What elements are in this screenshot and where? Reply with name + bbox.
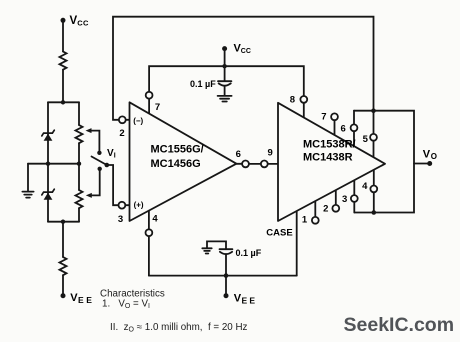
svg-text:EE: EE [242, 296, 258, 306]
svg-text:0.1 µF: 0.1 µF [190, 79, 216, 89]
svg-text:SeekIC.com: SeekIC.com [344, 314, 455, 336]
svg-text:MC1438R: MC1438R [303, 152, 353, 164]
svg-text:MC1556G/: MC1556G/ [151, 144, 204, 156]
svg-text:MC1456G: MC1456G [151, 158, 201, 170]
svg-text:6: 6 [341, 124, 346, 135]
svg-text:MC1538R/: MC1538R/ [303, 138, 356, 150]
svg-text:4: 4 [362, 181, 368, 192]
svg-text:V: V [423, 148, 431, 160]
svg-text:1: 1 [302, 214, 308, 225]
svg-text:O: O [431, 152, 437, 161]
svg-text:EE: EE [78, 295, 95, 305]
svg-text:2: 2 [323, 204, 328, 215]
svg-text:3: 3 [342, 194, 347, 205]
svg-text:(−): (−) [133, 116, 143, 125]
svg-text:7: 7 [321, 112, 326, 123]
svg-text:3: 3 [118, 214, 123, 225]
svg-text:9: 9 [268, 148, 273, 159]
svg-text:I: I [114, 153, 116, 160]
svg-text:CC: CC [241, 48, 251, 55]
svg-text:0.1 µF: 0.1 µF [236, 248, 262, 258]
svg-text:2: 2 [119, 128, 124, 139]
svg-text:CASE: CASE [266, 227, 292, 238]
svg-text:8: 8 [290, 95, 295, 106]
svg-text:5: 5 [363, 134, 369, 145]
svg-text:4: 4 [152, 214, 158, 225]
svg-text:(+): (+) [134, 200, 144, 209]
svg-text:7: 7 [155, 102, 160, 113]
svg-text:CC: CC [77, 19, 89, 28]
svg-text:6: 6 [236, 149, 241, 160]
